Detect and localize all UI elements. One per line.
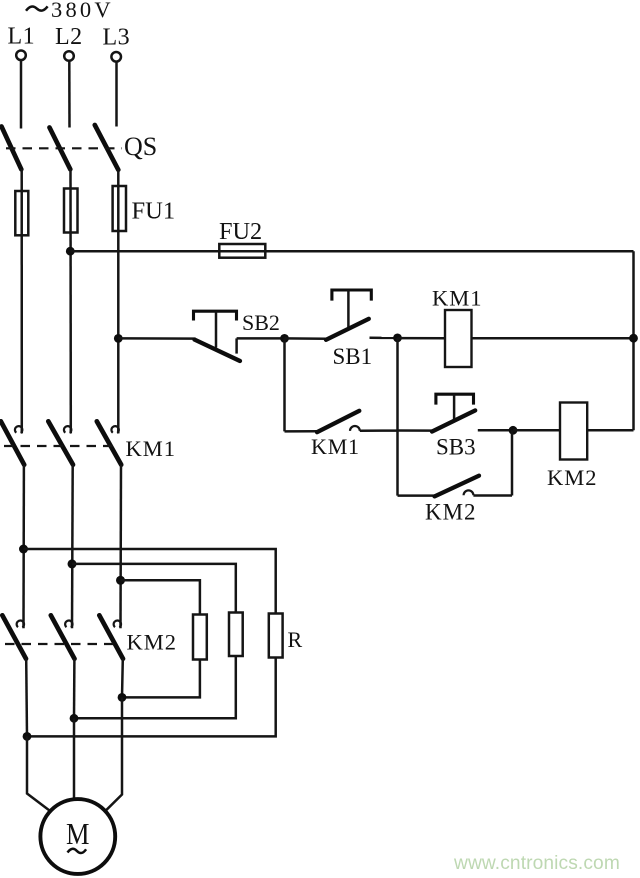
wire L3 terminal to QS [115,62,118,127]
wire phase3 to resistor R1 top [121,580,200,614]
wire SB1 to junction B [370,337,398,340]
pushbutton SB2 (NC) [194,311,241,361]
wire phase2 to motor [73,718,76,799]
svg-text:R: R [288,627,303,652]
wire resistor R2 bottom to phase2 [74,656,236,718]
terminal L2 label [55,24,83,50]
contactor KM1 main label [126,436,177,461]
junction phase1 resistor return [23,732,32,741]
contact KM1 aux label [311,434,360,459]
junction row1 node A [280,334,289,343]
wire KM2 coil to right rail [587,429,633,432]
contactor KM1 main contact pole 1 [1,421,24,464]
contactor KM2 main label [127,630,178,655]
svg-text:www.cntronics.com: www.cntronics.com [453,853,620,874]
contact KM2 auxiliary (NO) row3 [398,430,513,496]
wire phase1 to resistor R3 top [24,549,276,614]
net label ~380V [26,0,114,22]
svg-text:KM1: KM1 [432,286,483,311]
svg-text:KM2: KM2 [547,465,598,490]
contactor KM2 main contact pole 2 [51,615,75,658]
contact KM2 aux label [425,500,477,525]
wire KM2 pole2 down [73,659,76,719]
wire L2 terminal to QS [68,61,71,128]
junction phase2 resistor return [70,714,79,723]
svg-text:SB1: SB1 [333,344,373,369]
contact KM1 auxiliary (NO) [285,411,398,432]
motor M [40,799,115,874]
wire SB3 to junction C [478,429,513,432]
switch QS label [124,132,157,161]
pushbutton SB3 label [436,435,476,460]
fuse FU1 label [132,198,176,225]
resistor R label [288,627,303,652]
junction phase2 to resistor branch [68,559,77,568]
contactor KM1 main contact pole 3 [97,421,121,464]
wire resistor R1 bottom to phase3 [122,660,200,698]
wire node A down to KM1 aux contact [283,338,286,431]
wire QS to FU1 and down to KM1 pole 1 [20,169,23,433]
wire junction C to KM2 coil [513,429,560,432]
switch QS pole 2 blade [50,128,71,170]
junction phase3 to resistor branch [116,576,125,585]
svg-text:L2: L2 [55,24,83,50]
svg-text:SB3: SB3 [436,435,476,460]
wire KM1 pole2 down to KM2 [71,465,74,629]
terminal L3 circle [111,52,121,62]
svg-text:FU1: FU1 [132,198,176,225]
wire row1 from L3 to SB2 [118,337,195,340]
junction on L3 feeding control row 1 [114,334,123,343]
svg-text:KM2: KM2 [425,500,477,525]
junction phase3 resistor return [118,693,127,702]
wire node B to SB3 [398,429,433,432]
wire junction to SB1 [285,337,327,340]
coil KM2 label [547,465,598,490]
wire KM1 pole3 down to KM2 [119,465,122,629]
svg-text:KM1: KM1 [311,434,360,459]
wire resistor R3 bottom to phase1 [27,658,276,737]
pushbutton SB3 (NO) [432,394,475,431]
wire L1 terminal to QS [20,60,23,129]
terminal L1 label [8,24,36,50]
coil KM1 label [432,286,483,311]
svg-text:QS: QS [124,132,157,161]
wire QS to FU1 and down to KM1 pole 2 [69,169,72,433]
resistor R1 [193,615,207,660]
watermark www.cntronics.com [453,853,620,874]
terminal L1 circle [16,51,26,61]
wire top control rail [70,250,633,253]
pushbutton SB1 label [333,344,373,369]
fuse FU2 [219,244,265,258]
wire KM1 coil to right rail [472,337,634,340]
pushbutton SB1 (NO) [326,290,371,340]
contactor KM2 main contact pole 3 [99,615,123,658]
svg-text:L3: L3 [103,24,131,50]
wire right control rail [632,251,635,430]
contactor KM2 linkage dashed [5,643,120,645]
junction on L2 feeding control rail [66,247,75,256]
junction right rail [629,334,638,343]
switch QS linkage dashed line [6,147,122,149]
pushbutton SB2 label [242,310,280,335]
svg-text:KM2: KM2 [127,630,178,655]
wire SB2 to junction [237,337,285,340]
svg-text:SB2: SB2 [242,310,280,335]
wire KM2 pole1 down [25,659,28,737]
wire node B down to row2 and row3 [396,338,399,496]
wire phase2 to resistor R2 top [72,564,236,613]
coil KM2 [560,403,587,460]
svg-text:M: M [66,816,90,851]
junction phase1 to resistor branch [19,545,28,554]
wire KM1 pole1 down to KM2 [22,465,25,629]
svg-text:FU2: FU2 [219,218,262,245]
contactor KM1 main contact pole 2 [48,421,73,464]
resistor R2 [229,613,243,657]
switch QS pole 1 blade [2,127,22,170]
wire phase1 to motor [27,736,50,810]
svg-text:380V: 380V [51,0,114,22]
wire phase3 to motor [106,697,123,810]
wire junction B to KM1 coil [398,337,446,340]
coil KM1 [445,310,472,367]
wire QS to FU1 and down to KM1 pole 3 [117,170,120,434]
svg-text:KM1: KM1 [126,436,177,461]
fuse FU1 pole 2 [64,189,78,233]
terminal L2 circle [64,51,74,61]
svg-text:L1: L1 [8,24,36,50]
contactor KM1 linkage dashed [4,445,118,447]
switch QS pole 3 blade [95,125,119,170]
fuse FU2 label [219,218,262,245]
fuse FU1 pole 3 [113,186,126,231]
wire KM2 pole3 down [121,659,124,698]
terminal L3 label [103,24,131,50]
junction node B [393,334,402,343]
fuse FU1 pole 1 [15,191,28,235]
resistor R3 [269,614,283,658]
junction node C [509,426,518,435]
contactor KM2 main contact pole 1 [2,615,26,658]
